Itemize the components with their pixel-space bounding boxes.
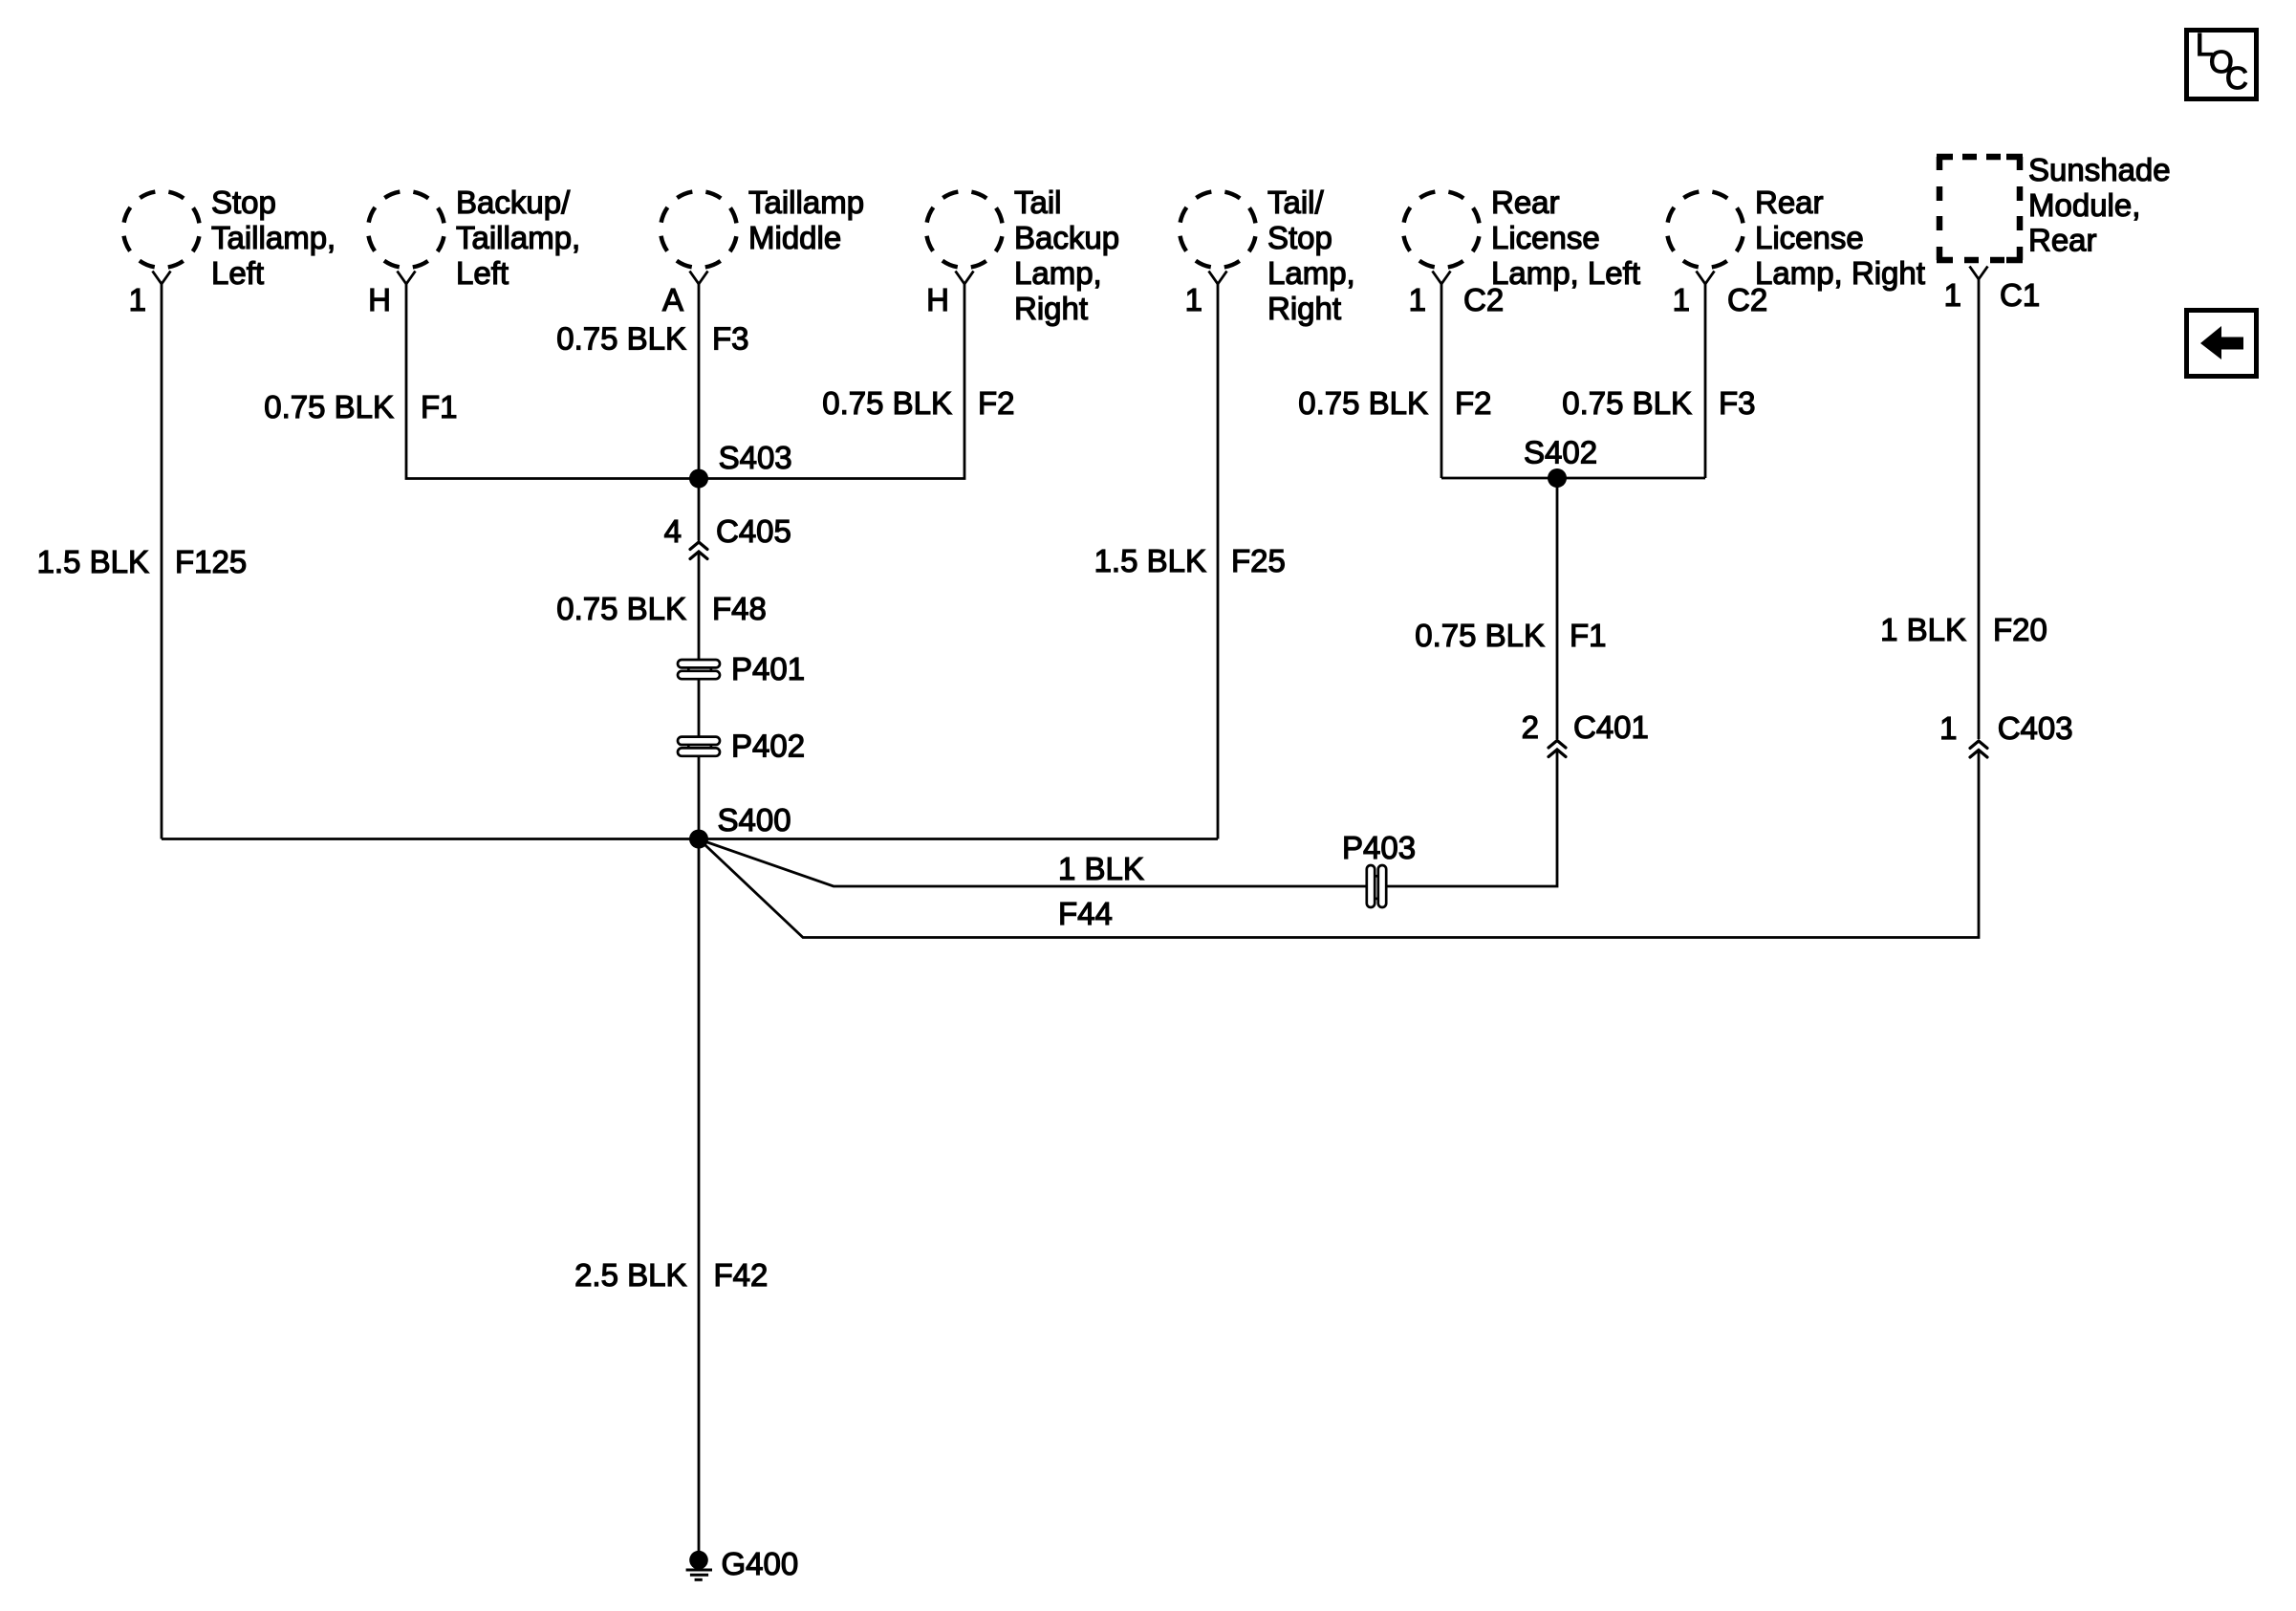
splice S402 <box>1524 435 1597 489</box>
wire F44: S400 to P403 to C401 <box>700 839 1367 886</box>
svg-text:F25: F25 <box>1231 543 1286 578</box>
svg-text:Middle: Middle <box>748 220 841 255</box>
svg-text:0.75 BLK: 0.75 BLK <box>1562 385 1692 421</box>
svg-text:C405: C405 <box>716 513 791 549</box>
lamp rear license lamp left <box>1403 185 1640 317</box>
svg-text:P402: P402 <box>731 729 805 764</box>
svg-text:H: H <box>926 282 949 317</box>
svg-text:1: 1 <box>1185 282 1202 317</box>
wire F48: C405 down to P401 <box>698 552 701 660</box>
svg-text:C403: C403 <box>1998 710 2073 746</box>
label 2.5 BLK F42 <box>574 1257 768 1293</box>
wire F20: sunshade module pin 1 down to C403 <box>1978 279 1981 739</box>
ground G400 <box>686 1546 799 1581</box>
svg-text:F20: F20 <box>1993 612 2047 647</box>
svg-text:Lamp,: Lamp, <box>1267 255 1355 291</box>
svg-text:F125: F125 <box>175 544 247 579</box>
svg-text:Lamp, Right: Lamp, Right <box>1755 255 1925 291</box>
S400 main ground bus line <box>162 838 1218 840</box>
wire F3: taillamp middle pin A down to C405 <box>698 284 701 541</box>
svg-text:F3: F3 <box>1719 385 1756 421</box>
svg-text:F1: F1 <box>1570 618 1607 653</box>
connector row 1 C403 <box>1939 710 2072 746</box>
svg-text:1 BLK: 1 BLK <box>1058 851 1144 886</box>
svg-text:Rear: Rear <box>1491 185 1560 220</box>
connector C405 chevrons <box>690 542 707 559</box>
label 0.75 BLK F3 <box>556 321 748 357</box>
wire F42: S400 down to ground G400 <box>698 839 701 1552</box>
lamp tail backup lamp right <box>926 185 1119 326</box>
splice S400 <box>689 802 791 849</box>
svg-text:F1: F1 <box>421 389 458 425</box>
svg-text:F3: F3 <box>712 321 749 357</box>
svg-text:2.5 BLK: 2.5 BLK <box>574 1257 686 1293</box>
svg-text:G400: G400 <box>722 1546 799 1581</box>
wire F125: stop taillamp left pin 1 down to S400 line <box>161 284 163 839</box>
lamp rear license lamp right <box>1667 185 1925 317</box>
svg-text:Lamp,: Lamp, <box>1014 255 1102 291</box>
svg-text:Stop: Stop <box>211 185 276 220</box>
svg-text:Right: Right <box>1014 291 1088 326</box>
connector row 2 C401 <box>1522 709 1649 745</box>
label 1 BLK F20 <box>1880 612 2047 647</box>
wire F1: backup/taillamp left pin H down and right to S403 <box>406 284 699 479</box>
svg-text:1: 1 <box>1939 710 1957 746</box>
svg-text:S400: S400 <box>718 802 791 838</box>
back-arrow legend box <box>2187 311 2257 377</box>
connector row 4 C405 <box>664 513 791 549</box>
grommet P401 <box>678 651 805 686</box>
svg-text:License: License <box>1755 220 1864 255</box>
wire F2: tail backup lamp right pin H down and left to S403 <box>699 284 964 479</box>
label 0.75 BLK F1 <box>264 389 457 425</box>
label 0.75 BLK F2 (license left) <box>1298 385 1491 421</box>
svg-text:C401: C401 <box>1573 709 1649 745</box>
lamp backup/taillamp left <box>368 185 580 317</box>
label 0.75 BLK F2 <box>822 385 1014 421</box>
wire F42 upper: P402 down to S400 <box>698 756 701 839</box>
sunshade module, rear (dashed box) <box>1937 152 2171 313</box>
svg-text:0.75 BLK: 0.75 BLK <box>822 385 952 421</box>
label 1.5 BLK F125 <box>37 544 248 579</box>
svg-text:Tail/: Tail/ <box>1267 185 1325 220</box>
svg-text:0.75 BLK: 0.75 BLK <box>556 321 686 357</box>
svg-text:Left: Left <box>456 255 509 291</box>
svg-text:Rear: Rear <box>2028 223 2097 258</box>
svg-text:Module,: Module, <box>2028 187 2140 223</box>
svg-text:0.75 BLK: 0.75 BLK <box>1298 385 1428 421</box>
svg-text:S403: S403 <box>719 440 792 475</box>
svg-text:Backup/: Backup/ <box>456 185 571 220</box>
svg-text:Tail: Tail <box>1014 185 1062 220</box>
svg-text:Left: Left <box>211 255 264 291</box>
svg-text:Rear: Rear <box>1755 185 1824 220</box>
svg-text:1: 1 <box>1409 282 1426 317</box>
label 0.75 BLK F3 (license right) <box>1562 385 1755 421</box>
svg-text:Stop: Stop <box>1267 220 1332 255</box>
grommet P402 <box>678 729 805 764</box>
svg-text:C: C <box>2225 60 2248 96</box>
svg-text:C2: C2 <box>1727 282 1767 317</box>
svg-text:1: 1 <box>1673 282 1690 317</box>
label 1.5 BLK F25 <box>1094 543 1286 578</box>
svg-text:C2: C2 <box>1463 282 1504 317</box>
lamp tail/stop lamp right <box>1180 185 1355 326</box>
wire between P401 and P402 <box>698 679 701 736</box>
label 1 BLK F44 <box>1058 851 1144 931</box>
wire F3: rear license lamp right down to S402 <box>1704 284 1707 478</box>
svg-text:Lamp, Left: Lamp, Left <box>1491 255 1640 291</box>
svg-text:4: 4 <box>664 513 682 549</box>
svg-text:2: 2 <box>1522 709 1539 745</box>
label 0.75 BLK F48 <box>556 591 767 626</box>
wire F20: S400 to C403 <box>700 750 1980 938</box>
wire F25: tail/stop lamp right pin 1 down to S400 line <box>1217 284 1220 839</box>
svg-text:1: 1 <box>129 282 146 317</box>
svg-text:License: License <box>1491 220 1600 255</box>
svg-text:1.5 BLK: 1.5 BLK <box>1094 543 1206 578</box>
label 0.75 BLK F1 (C401 leg) <box>1415 618 1606 653</box>
connector C403 chevrons <box>1970 741 1987 757</box>
svg-text:0.75 BLK: 0.75 BLK <box>556 591 686 626</box>
wire F1: C401 up to S402 <box>1556 478 1559 739</box>
S402 bus line <box>1441 477 1705 480</box>
wire F2: rear license lamp left down to S402 <box>1440 284 1443 478</box>
svg-text:P403: P403 <box>1342 830 1416 865</box>
svg-text:Backup: Backup <box>1014 220 1119 255</box>
svg-text:1 BLK: 1 BLK <box>1880 612 1966 647</box>
svg-text:1.5 BLK: 1.5 BLK <box>37 544 149 579</box>
svg-text:0.75 BLK: 0.75 BLK <box>264 389 394 425</box>
svg-text:Right: Right <box>1267 291 1341 326</box>
svg-text:H: H <box>368 282 391 317</box>
svg-text:Taillamp: Taillamp <box>748 185 864 220</box>
lamp stop taillamp left <box>123 185 336 317</box>
svg-text:Taillamp,: Taillamp, <box>456 220 580 255</box>
svg-text:A: A <box>662 282 683 317</box>
lamp taillamp middle <box>661 185 864 317</box>
svg-text:F42: F42 <box>714 1257 769 1293</box>
svg-text:F48: F48 <box>712 591 767 626</box>
svg-text:F2: F2 <box>978 385 1015 421</box>
svg-text:Taillamp,: Taillamp, <box>211 220 336 255</box>
svg-text:1: 1 <box>1944 277 1961 313</box>
svg-text:C1: C1 <box>2000 277 2040 313</box>
svg-text:F44: F44 <box>1058 896 1113 931</box>
inline connector P403 <box>1342 830 1416 907</box>
svg-text:0.75 BLK: 0.75 BLK <box>1415 618 1545 653</box>
svg-text:Sunshade: Sunshade <box>2028 152 2171 187</box>
connector C401 chevrons <box>1549 741 1566 757</box>
LOC legend box <box>2187 27 2257 99</box>
svg-text:S402: S402 <box>1524 435 1597 470</box>
svg-text:F2: F2 <box>1455 385 1492 421</box>
svg-text:P401: P401 <box>731 651 805 686</box>
splice S403 <box>689 440 792 489</box>
